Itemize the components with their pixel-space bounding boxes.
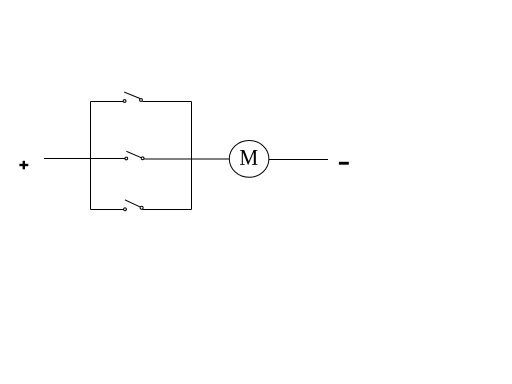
node + (positive supply terminal) [19, 161, 28, 170]
wire top branch right segment [143, 100, 192, 102]
switch bottom branch (open SPST) [124, 200, 144, 211]
wire bottom branch right segment [143, 208, 192, 210]
wire left vertical bus [89, 101, 91, 209]
motor M label [240, 150, 258, 165]
node - (negative supply terminal) [339, 162, 349, 165]
wire bottom branch left segment [90, 208, 123, 210]
wire from motor to - terminal [269, 158, 328, 160]
motor M (circle symbol) [229, 141, 269, 178]
switch middle branch (open SPST) [125, 151, 144, 160]
wire from + terminal to left bus [44, 158, 125, 160]
wire middle branch from switch to motor [144, 158, 229, 160]
wire top branch left segment [90, 100, 123, 102]
switch top branch (open SPST) [123, 92, 142, 102]
wire right vertical bus [191, 101, 193, 209]
